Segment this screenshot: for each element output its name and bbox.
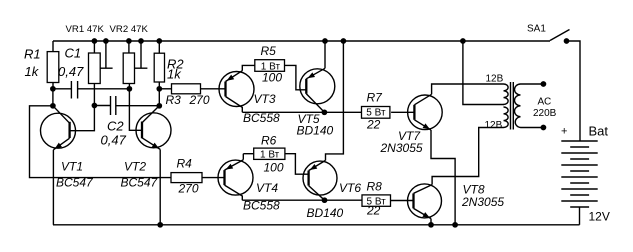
wire VR2 wiper — [135, 41, 147, 68]
wire R6 right lead to VT6 base — [285, 154, 309, 175]
wire secondary top lead — [521, 83, 544, 85]
svg-text:BD140: BD140 — [297, 123, 334, 137]
wire row2 left (VR1 to C2) — [94, 105, 110, 107]
wire VR1 wiper — [100, 41, 112, 68]
svg-text:220В: 220В — [533, 108, 557, 119]
svg-text:VT1: VT1 — [61, 160, 83, 174]
wire top +12V rail — [53, 40, 550, 42]
wire VT2 base — [129, 89, 142, 131]
wire R5 right lead to VT5 base — [285, 65, 307, 89]
potentiometer VR2 — [123, 53, 134, 84]
wire feedback VT1 collector to R4 — [30, 106, 172, 178]
node center tap rail junction — [460, 38, 466, 44]
svg-text:BC547: BC547 — [121, 176, 159, 190]
wire R3 right lead — [201, 88, 226, 90]
node VT8 emitter ground junction — [428, 222, 434, 228]
resistor R3 — [172, 84, 201, 94]
node R2-R3-VT2coll junction — [156, 86, 162, 92]
transistor VT4 — [218, 160, 253, 201]
transformer T1 secondary winding — [514, 84, 520, 128]
node VR1 top junction — [92, 38, 98, 44]
node secondary top terminal — [541, 81, 547, 87]
resistor R5 — [255, 60, 285, 72]
wire VT2 emitter to ground rail — [159, 149, 161, 224]
node VT6 emitter rail junction — [341, 38, 347, 44]
svg-text:VT2: VT2 — [124, 160, 146, 174]
svg-text:1k: 1k — [25, 64, 40, 79]
svg-text:Bat: Bat — [589, 123, 609, 138]
wire R2 top stub — [158, 41, 160, 53]
svg-text:12В: 12В — [485, 120, 503, 131]
wire VR2 bottom stub — [128, 84, 130, 89]
wire secondary bottom lead — [521, 127, 544, 129]
resistor R6 — [254, 148, 285, 159]
wire VT6 emitter to +rail — [326, 41, 344, 160]
node VT2 emitter ground junction — [157, 222, 163, 228]
svg-text:SA1: SA1 — [527, 24, 546, 35]
node VR2 top junction — [126, 38, 132, 44]
svg-text:+: + — [561, 125, 567, 137]
svg-text:270: 270 — [178, 182, 199, 196]
svg-text:R3: R3 — [166, 93, 182, 107]
wire VT3 emitter to R5 — [242, 65, 255, 70]
transistor VT8 — [408, 184, 442, 219]
svg-text:VR2 47K: VR2 47K — [110, 24, 149, 35]
resistor R4 — [171, 173, 202, 183]
svg-text:R7: R7 — [367, 91, 384, 105]
wire battery bottom stub — [579, 207, 581, 225]
svg-text:BD140: BD140 — [307, 206, 344, 220]
transformer T1 core — [511, 82, 514, 130]
potentiometer VR1 — [89, 53, 101, 84]
svg-text:BC558: BC558 — [243, 111, 280, 125]
wire driver bottom line to R8 — [242, 199, 362, 201]
node VT6 collector junction — [322, 197, 328, 203]
node VR2 wiper junction — [138, 38, 144, 44]
node VT5 collector junction — [322, 109, 328, 115]
wire C2 to VT2 collector node — [116, 105, 160, 107]
svg-text:VT4: VT4 — [256, 181, 278, 195]
resistor R1 — [47, 52, 59, 83]
battery Bat plates — [561, 141, 597, 207]
svg-text:22: 22 — [366, 118, 381, 132]
wire R7 right lead — [391, 111, 414, 113]
wire VT8 collector to transformer bottom — [432, 128, 503, 185]
resistor R8 — [362, 195, 391, 206]
wire VT2 collector node segment — [158, 89, 160, 106]
svg-text:270: 270 — [189, 93, 210, 107]
wire VR1 bottom stub — [93, 84, 95, 106]
wire VT8 emitter to ground rail — [430, 219, 432, 225]
svg-text:1k: 1k — [167, 67, 182, 82]
wire driver top line to R7 — [242, 111, 361, 113]
wire VT1 base — [70, 106, 95, 131]
wire R3 left lead — [159, 88, 171, 90]
wire R4 right lead — [202, 177, 225, 179]
wire VR1 top stub — [93, 41, 95, 53]
node secondary bottom terminal — [541, 125, 547, 131]
svg-text:2N3055: 2N3055 — [461, 195, 504, 209]
wire transformer center tap to +rail — [463, 41, 504, 105]
node VT1 collector junction — [50, 103, 56, 109]
svg-text:VT6: VT6 — [339, 181, 361, 195]
node VT7 emitter ground junction — [452, 222, 458, 228]
wire C1 to VT2 base node — [78, 88, 130, 90]
svg-text:R5: R5 — [261, 44, 277, 58]
svg-text:2N3055: 2N3055 — [380, 141, 423, 155]
svg-text:12В: 12В — [486, 74, 504, 85]
wire SA1 to battery top — [567, 41, 581, 141]
svg-text:АС: АС — [538, 97, 552, 108]
transistor VT3 — [219, 71, 254, 113]
transistor VT7 — [408, 94, 443, 130]
wire VT4 emitter to R6 — [242, 154, 244, 160]
svg-text:12V: 12V — [589, 209, 610, 223]
wire VT5 emitter to +rail — [324, 41, 326, 68]
wire row1 left — [53, 88, 72, 90]
svg-text:100: 100 — [264, 160, 284, 174]
transistor VT5 — [300, 68, 335, 112]
svg-text:C2: C2 — [107, 119, 124, 134]
svg-text:0,47: 0,47 — [58, 64, 84, 79]
wire R1 bottom stub — [52, 83, 54, 89]
wire R8 right lead — [391, 200, 414, 202]
svg-text:C1: C1 — [65, 46, 82, 61]
svg-text:R8: R8 — [367, 180, 383, 194]
node VT2 collector-C2 junction — [156, 103, 162, 109]
resistor R2 — [154, 53, 164, 82]
node VR2-C1-VT2base junction — [127, 86, 133, 92]
switch SA1 blade — [550, 30, 570, 41]
transistor VT6 — [303, 160, 337, 200]
wire ground rail — [53, 224, 580, 226]
wire VR2 top stub — [128, 41, 130, 53]
svg-text:VR1 47K: VR1 47K — [66, 24, 105, 35]
transistor VT1 — [41, 106, 76, 150]
node R1-C1 junction — [50, 86, 56, 92]
svg-text:VT3: VT3 — [254, 92, 276, 106]
svg-text:1 Вт: 1 Вт — [260, 149, 280, 160]
wire VT1 emitter to ground rail — [52, 150, 54, 225]
svg-text:0,47: 0,47 — [101, 133, 127, 148]
node VT5 emitter rail junction — [322, 38, 328, 44]
transistor VT2 — [136, 106, 171, 150]
transformer T1 primary winding — [504, 84, 509, 128]
svg-text:R1: R1 — [24, 47, 41, 62]
node SA1 right terminal — [564, 38, 570, 44]
capacitor C1 — [71, 81, 77, 99]
svg-text:22: 22 — [366, 204, 381, 218]
svg-text:BC547: BC547 — [56, 176, 94, 190]
svg-text:R4: R4 — [177, 157, 193, 171]
wire R1 top stub — [52, 41, 54, 52]
svg-text:100: 100 — [262, 71, 282, 85]
capacitor C2 — [111, 96, 116, 115]
svg-text:R6: R6 — [261, 134, 277, 148]
resistor R7 — [362, 107, 390, 119]
wire VT7 emitter to ground rail — [431, 130, 455, 225]
wire R6 left lead — [243, 153, 253, 155]
node R2 top junction — [156, 38, 162, 44]
wire R2 bottom stub — [158, 82, 160, 89]
node VR1-C2-VT1base junction — [92, 103, 98, 109]
wire VT1 collector node segment — [52, 89, 54, 106]
wire VT7 collector to transformer top — [432, 84, 504, 94]
node VR1 wiper junction — [103, 38, 109, 44]
